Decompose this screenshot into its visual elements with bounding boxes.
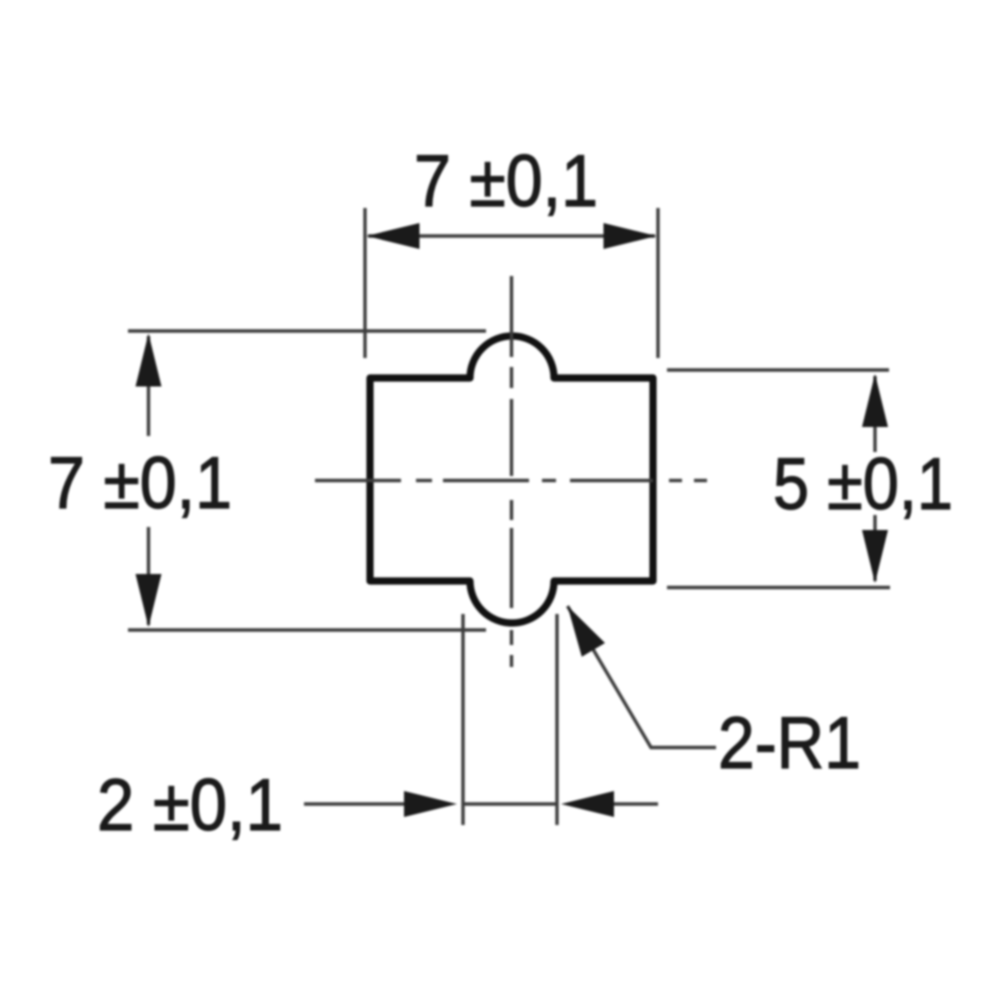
vertical centerline (dash-dot) [510,276,513,667]
top width dimension left arrowhead [367,223,420,249]
leader arrowhead [568,606,606,657]
svg-text:7 ±0,1: 7 ±0,1 [414,141,598,222]
svg-text:2-R1: 2-R1 [718,703,861,784]
top width dimension right arrowhead [604,223,657,249]
horizontal centerline (dash-dot) [315,479,707,482]
bottom notch dimension right arrowhead (pointing left) [561,791,614,817]
left height dimension up arrowhead [136,334,162,387]
right height dimension down arrowhead [862,530,888,583]
top width dimension line [368,234,655,237]
right height dimension: top extension line [667,368,889,371]
bottom notch dimension left arrowhead (pointing right) [404,791,457,817]
right height dimension up arrowhead [862,374,888,427]
right height dimension: bottom extension line [667,586,890,589]
left height dimension down arrowhead [136,574,162,627]
left height dimension line (broken for text) [147,336,150,625]
part outline with top and bottom semicircular bumps (R1) [370,336,653,623]
bottom notch dimension: right extension line [555,614,558,825]
bottom notch dimension: left extension line [461,614,464,825]
svg-text:7 ±0,1: 7 ±0,1 [48,443,232,524]
left height dimension: top extension line [128,329,486,332]
top width dimension: left extension line [363,208,366,358]
right height dimension line (broken for text) [873,376,876,581]
top width dimension: right extension line [656,208,659,358]
svg-text:2 ±0,1: 2 ±0,1 [97,765,283,846]
leader line for radius callout [568,606,717,748]
left height dimension: bottom extension line [128,628,486,631]
svg-text:5 ±0,1: 5 ±0,1 [773,444,953,525]
bottom notch dimension line segments [304,802,658,805]
